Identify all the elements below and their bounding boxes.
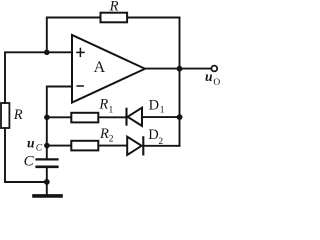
- wire D1 to right line: [142, 116, 180, 118]
- diode D2 cathode bar: [142, 136, 144, 155]
- op-amp + sign: [76, 48, 85, 86]
- svg-text:D: D: [148, 127, 158, 143]
- wire top horizontal right: [127, 17, 180, 19]
- wire feedback vertical (+ node up): [46, 18, 48, 53]
- wire left vertical upper: [4, 51, 6, 104]
- ground bar: [32, 194, 63, 198]
- wire R1 row left: [47, 116, 72, 118]
- svg-text:A: A: [94, 59, 106, 76]
- capacitor C bottom plate: [35, 166, 58, 169]
- wire output row: [144, 68, 211, 70]
- wire top horizontal left: [46, 17, 100, 19]
- svg-text:C: C: [36, 144, 43, 154]
- wire center vertical (inverting node): [46, 86, 48, 160]
- resistor R1: [71, 113, 98, 123]
- svg-text:C: C: [24, 154, 35, 170]
- node D1 junction: [177, 114, 183, 120]
- svg-text:1: 1: [109, 105, 114, 115]
- wire R1 to D1: [98, 116, 126, 118]
- wire + input row horizontal: [5, 51, 72, 53]
- wire bottom horizontal to ground node: [4, 181, 47, 183]
- resistor R2: [71, 141, 98, 151]
- wire capacitor to ground: [46, 168, 48, 195]
- node ground junction: [44, 179, 50, 185]
- svg-text:u: u: [205, 69, 213, 84]
- diode D1 triangle: [128, 108, 142, 126]
- op-amp - sign: [77, 85, 84, 87]
- wire R2 to D2: [98, 145, 127, 147]
- svg-text:R: R: [98, 97, 108, 113]
- node + input junction: [44, 50, 50, 56]
- svg-text:2: 2: [109, 135, 114, 145]
- svg-text:R: R: [13, 107, 23, 123]
- node output junction: [177, 66, 183, 72]
- wire D2 to right line: [143, 145, 180, 147]
- node uC junction: [44, 143, 50, 149]
- svg-text:u: u: [27, 136, 35, 151]
- svg-text:R: R: [99, 126, 109, 142]
- op-amp A triangle: [72, 35, 145, 103]
- wire left vertical lower: [4, 128, 6, 183]
- node R1 junction: [44, 115, 50, 121]
- svg-text:1: 1: [160, 106, 165, 116]
- svg-text:D: D: [149, 98, 159, 114]
- svg-text:R: R: [109, 0, 119, 14]
- capacitor C top plate: [35, 158, 58, 160]
- resistor R (left): [1, 103, 9, 128]
- diode D2 triangle: [127, 137, 141, 155]
- diode D1 cathode bar: [125, 108, 127, 126]
- svg-text:O: O: [213, 78, 220, 88]
- svg-text:2: 2: [158, 137, 163, 147]
- resistor R (top): [101, 13, 128, 23]
- wire - input row horizontal: [47, 86, 72, 88]
- wire right vertical: [179, 17, 181, 147]
- terminal uO circle: [211, 66, 217, 72]
- wire R2 row left: [47, 145, 72, 147]
